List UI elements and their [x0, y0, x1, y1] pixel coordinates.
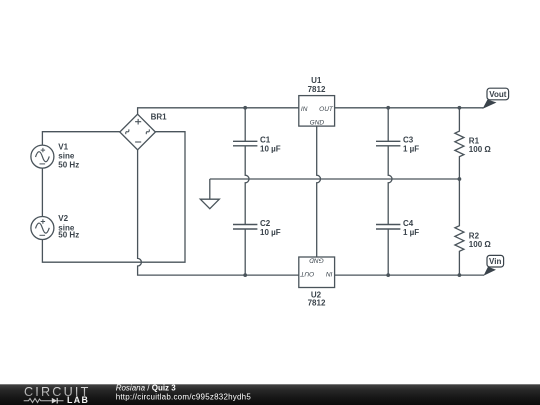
resistor R2 [455, 179, 491, 275]
wire C1 bottom to C2 top with hop over ground rail [245, 146, 249, 225]
svg-text:U1: U1 [311, 76, 322, 85]
junction dot R2 bottom [458, 273, 462, 277]
svg-text:OUT: OUT [299, 270, 314, 277]
wire U1 GND to U2 GND with hop over ground rail [317, 126, 321, 257]
svg-text:7812: 7812 [308, 298, 326, 307]
svg-text:100 Ω: 100 Ω [469, 240, 492, 249]
svg-text:1 µF: 1 µF [403, 145, 419, 154]
svg-text:LAB: LAB [67, 395, 89, 405]
svg-text:IN: IN [326, 270, 333, 277]
svg-text:50 Hz: 50 Hz [58, 160, 79, 169]
junction dot C3 top [386, 106, 390, 110]
wire C2 bottom [244, 229, 246, 275]
svg-text:GND: GND [310, 120, 325, 127]
capacitor C3 [376, 136, 419, 154]
wire top rail left (BR1 top to U1 IN) [138, 108, 299, 114]
junction dot R1 top [458, 106, 462, 110]
voltage regulator U2 7812 (rotated 180) [299, 257, 335, 308]
svg-text:C1: C1 [260, 136, 271, 145]
wire bottom rail right (U2 IN to Vin) [335, 274, 484, 276]
svg-text:100 Ω: 100 Ω [469, 145, 492, 154]
capacitor C1 [233, 136, 281, 154]
svg-text:OUT: OUT [319, 106, 334, 113]
flag Vin [484, 255, 504, 275]
svg-text:IN: IN [301, 106, 308, 113]
svg-text:V1: V1 [58, 142, 68, 151]
junction dot C4 bottom [386, 273, 390, 277]
svg-text:Vout: Vout [489, 90, 507, 99]
footer bar [0, 384, 540, 405]
svg-text:7812: 7812 [308, 85, 326, 94]
svg-text:GND: GND [309, 257, 324, 264]
svg-text:Rosiana / Quiz 3: Rosiana / Quiz 3 [116, 384, 177, 393]
svg-text:http://circuitlab.com/c995z832: http://circuitlab.com/c995z832hydh5 [116, 392, 252, 401]
ground [200, 179, 219, 209]
junction dot R1 bottom / ground rail [458, 177, 462, 181]
svg-text:BR1: BR1 [151, 113, 168, 122]
wire C1 top [244, 108, 246, 142]
wire top rail right (U1 OUT to Vout) [335, 107, 484, 109]
svg-text:50 Hz: 50 Hz [58, 231, 79, 240]
logo resistor-diode squiggle [24, 398, 64, 404]
voltage source V1 [31, 142, 79, 169]
svg-text:Vin: Vin [489, 257, 501, 266]
svg-text:C2: C2 [260, 219, 271, 228]
junction dot C1 top [243, 106, 247, 110]
flag Vout [483, 88, 509, 109]
wire V2 bottom to BR1 right vertex [42, 132, 185, 263]
wire C3 top [387, 108, 389, 142]
svg-text:10 µF: 10 µF [260, 145, 281, 154]
wire C4 bottom [387, 229, 389, 275]
voltage regulator U1 7812 [299, 76, 335, 126]
svg-text:1 µF: 1 µF [403, 228, 419, 237]
wire V1 bottom to V2 top [41, 168, 43, 216]
svg-text:10 µF: 10 µF [260, 228, 281, 237]
svg-text:C4: C4 [403, 219, 414, 228]
svg-text:C3: C3 [403, 136, 414, 145]
capacitor C4 [376, 219, 419, 237]
wire C3 bottom to C4 top with hop over ground rail [388, 146, 392, 225]
wire middle ground rail [210, 178, 460, 180]
wire BR1 left vertex to V1 top [42, 132, 119, 145]
svg-text:V2: V2 [58, 214, 68, 223]
capacitor C2 [233, 219, 281, 237]
wire BR1 bottom to bottom rail with hop over AC wire [138, 150, 299, 275]
svg-text:R1: R1 [469, 136, 480, 145]
resistor R1 [455, 108, 491, 179]
voltage source V2 [31, 214, 79, 240]
junction dot C2 bottom [243, 273, 247, 277]
bridge rectifier BR1 [120, 113, 167, 150]
svg-text:sine: sine [58, 152, 75, 161]
